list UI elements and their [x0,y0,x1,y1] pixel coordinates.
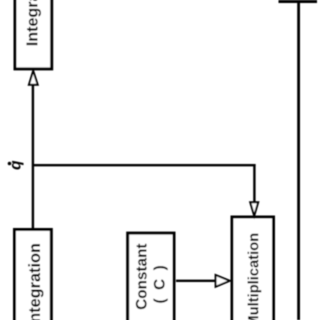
arrowhead into Multiplication (left) [216,275,230,287]
label ( C ) [153,266,167,303]
block Multiplication [232,217,274,320]
block Integration U2 (bottom-left, cut off) [15,230,52,320]
wire from Integration (lower) up to q-dot node and arrow [32,85,34,230]
node q-dot label [12,161,24,170]
arrowhead into Multiplication (top) [250,202,258,216]
label Constant [136,244,147,309]
block Constant (C) [128,233,174,320]
block Integration U1 (top, cut off) [15,0,52,69]
label Multiplication [248,234,262,320]
arrowhead into top Integration [29,71,38,85]
label Integration (top box) [26,0,41,45]
wire from q-dot node rightwards [33,164,256,166]
wire from top-right block downwards [297,2,300,320]
block (top-right, only bottom edge visible) [279,0,318,3]
wire from Constant to Multiplication [176,280,217,282]
node q-dot overdot [8,162,12,166]
wire down towards Multiplication [253,164,255,203]
label Integration (bottom box) [28,244,43,320]
